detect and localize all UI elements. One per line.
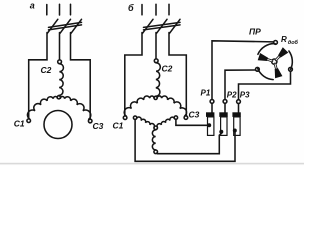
svg-text:P2: P2 bbox=[227, 91, 237, 100]
svg-text:P1: P1 bbox=[201, 89, 211, 98]
brush terminal P1 bbox=[210, 100, 214, 104]
switch S1 phase stub 2 bbox=[59, 4, 61, 15]
svg-text:C1: C1 bbox=[113, 121, 124, 131]
switch S2 link bar bbox=[144, 22, 181, 27]
slip ring 3 bbox=[234, 117, 240, 135]
winding C3 coil (b) bbox=[157, 96, 186, 116]
junction dot ring 2 bbox=[219, 130, 223, 134]
rotor terminal left bbox=[133, 116, 136, 119]
brush 2 bbox=[219, 112, 227, 117]
svg-text:C1: C1 bbox=[14, 119, 25, 129]
brush 3 stem bbox=[238, 104, 240, 113]
brush 1 stem bbox=[211, 103, 213, 112]
switch S1 phase stub 1 bbox=[46, 5, 48, 15]
wire: switch pole3 to C3 (b) bbox=[169, 33, 186, 116]
brush terminal P2 bbox=[223, 100, 227, 104]
rotor (squirrel cage) circle bbox=[44, 111, 72, 139]
junction dot ring 3 bbox=[233, 129, 237, 133]
wire: P2 to rheostat left bbox=[225, 70, 256, 100]
slip ring 2 bbox=[221, 117, 227, 135]
svg-text:б: б bbox=[128, 3, 134, 13]
svg-text:а: а bbox=[30, 1, 35, 11]
svg-text:C3: C3 bbox=[189, 110, 200, 120]
slip ring 1 bbox=[208, 117, 214, 135]
winding C2 coil (a) bbox=[59, 64, 64, 96]
rheostat arm 2 (left) bbox=[266, 59, 272, 61]
brush terminal P3 bbox=[237, 100, 241, 104]
switch S2 phase stub 1 bbox=[141, 5, 143, 15]
svg-text:R: R bbox=[281, 35, 287, 44]
junction dot ring 1 bbox=[207, 123, 211, 127]
rotor winding right (b) bbox=[157, 117, 174, 127]
star junction node (a) bbox=[57, 96, 60, 99]
terminal C2 (b) bbox=[154, 59, 158, 63]
switch S1 blade 3 bbox=[71, 19, 82, 33]
winding C3 coil (a) bbox=[60, 97, 90, 120]
rheostat resistance arc NW bbox=[258, 44, 275, 55]
rotor winding left (b) bbox=[137, 117, 155, 127]
rheostat resistance arc SW bbox=[258, 68, 274, 79]
rotor star centre node (b) bbox=[154, 126, 158, 130]
switch S1 phase stub 3 bbox=[70, 4, 72, 15]
terminal C1 (b) bbox=[123, 116, 127, 120]
svg-text:доб: доб bbox=[288, 39, 299, 46]
wire: P1 to rheostat top bbox=[212, 41, 274, 100]
wire: P3 to rheostat right bbox=[239, 71, 291, 99]
terminal C2 (a) bbox=[58, 60, 62, 64]
brush 3 bbox=[232, 112, 240, 117]
wire: switch pole2 to C2 bbox=[59, 33, 61, 60]
rheostat terminal top bbox=[274, 41, 278, 45]
switch S1 blade 2 bbox=[60, 19, 71, 33]
winding C1 coil (b) bbox=[124, 96, 154, 116]
svg-text:P3: P3 bbox=[240, 91, 250, 100]
switch S2 blade 2 bbox=[157, 19, 168, 33]
rheostat resistance arc E bbox=[289, 51, 292, 69]
wire: switch pole2 to C2 (b) bbox=[155, 33, 157, 59]
terminal C3 (b) bbox=[184, 116, 188, 120]
rheostat arm 3 (down) bbox=[275, 64, 277, 70]
wire: rotor bottom terminal to slip ring 2 bbox=[157, 133, 221, 153]
star junction node (b) bbox=[154, 96, 157, 99]
switch S2 phase stub 3 bbox=[168, 4, 170, 15]
rotor terminal bottom bbox=[154, 150, 158, 154]
switch S2 blade 3 bbox=[170, 19, 181, 33]
switch S2 phase stub 2 bbox=[155, 4, 157, 15]
rheostat terminal right bbox=[289, 67, 293, 71]
svg-text:ПР: ПР bbox=[249, 27, 261, 37]
terminal C1 (a) bbox=[27, 119, 31, 123]
switch S2 blade 1 bbox=[143, 19, 154, 33]
rotor terminal right bbox=[174, 116, 177, 119]
svg-text:C3: C3 bbox=[93, 121, 104, 131]
winding C1 coil (a) bbox=[27, 97, 57, 119]
rotor winding bottom (b) bbox=[152, 130, 155, 150]
wire: switch pole1 to C1 bbox=[29, 33, 47, 119]
switch S1 link bar bbox=[49, 22, 82, 27]
winding C2 coil (b) bbox=[156, 63, 161, 96]
rheostat terminal left bbox=[256, 67, 260, 71]
wire: rotor left terminal to slip ring 3 bbox=[135, 120, 235, 162]
rheostat hub bbox=[272, 59, 277, 64]
rheostat brush wedge 2 bbox=[258, 53, 268, 61]
rheostat brush wedge 1 bbox=[278, 47, 288, 57]
terminal C3 (a) bbox=[88, 119, 92, 123]
rheostat brush wedge 3 bbox=[275, 68, 283, 78]
svg-text:C2: C2 bbox=[162, 64, 173, 74]
svg-text:C2: C2 bbox=[41, 65, 52, 75]
wire: switch pole3 to C3 bbox=[71, 33, 91, 120]
rheostat arm 1 (up-right) bbox=[276, 55, 280, 60]
wire: rotor right terminal to slip ring 1 bbox=[176, 119, 207, 125]
wire: switch pole1 to C1 (b) bbox=[125, 33, 142, 116]
brush 2 stem bbox=[224, 103, 226, 112]
scan artifact line bbox=[0, 163, 304, 165]
switch S1 blade 1 bbox=[47, 19, 58, 33]
brush 1 bbox=[206, 112, 214, 117]
